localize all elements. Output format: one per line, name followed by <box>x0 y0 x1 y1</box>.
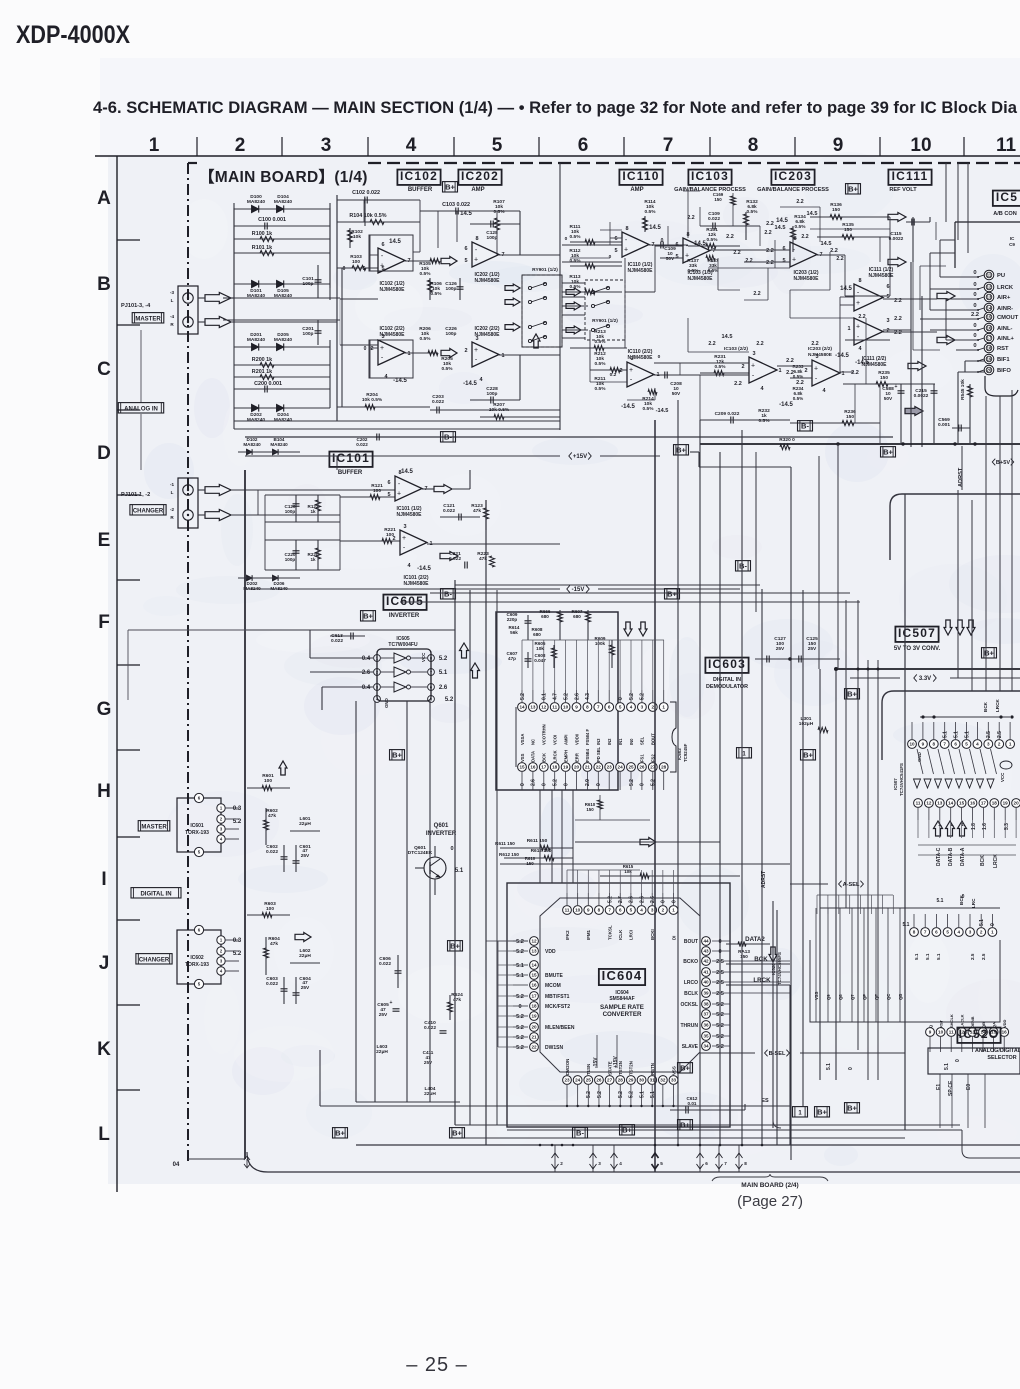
svg-text:AMPI: AMPI <box>563 735 568 745</box>
svg-text:MCK/FST2: MCK/FST2 <box>545 1004 570 1010</box>
svg-text:680: 680 <box>573 614 581 619</box>
svg-text:5.1: 5.1 <box>979 919 985 926</box>
svg-text:18: 18 <box>531 1004 537 1009</box>
svg-text:0: 0 <box>671 900 677 903</box>
svg-text:2.5: 2.5 <box>986 731 992 738</box>
svg-text:2.2: 2.2 <box>753 291 760 297</box>
svg-text:B+: B+ <box>452 1129 462 1138</box>
svg-text:IC111: IC111 <box>892 169 929 183</box>
svg-text:0: 0 <box>973 323 976 329</box>
svg-text:150: 150 <box>844 227 852 233</box>
svg-text:PD SEL: PD SEL <box>596 746 601 762</box>
svg-text:ICLK: ICLK <box>618 929 623 940</box>
svg-text:5.1: 5.1 <box>516 973 524 979</box>
svg-text:2.2: 2.2 <box>687 215 694 221</box>
svg-text:C102 0.022: C102 0.022 <box>352 190 380 196</box>
svg-text:0.047: 0.047 <box>534 658 546 663</box>
svg-text:0: 0 <box>364 346 367 352</box>
svg-text:6: 6 <box>675 242 678 248</box>
svg-text:36: 36 <box>703 1023 709 1028</box>
svg-text:5.2: 5.2 <box>629 693 635 700</box>
svg-text:5: 5 <box>660 1161 663 1166</box>
svg-text:5.1: 5.1 <box>639 1091 645 1098</box>
svg-text:1.8: 1.8 <box>971 823 977 830</box>
svg-text:TORX-193: TORX-193 <box>185 962 209 968</box>
svg-text:8: 8 <box>858 278 861 284</box>
svg-text:23: 23 <box>564 1078 570 1083</box>
svg-text:AINL-: AINL- <box>997 326 1013 332</box>
svg-text:16: 16 <box>970 801 976 806</box>
svg-text:1: 1 <box>847 326 850 332</box>
svg-text:15: 15 <box>531 973 537 978</box>
svg-text:100p: 100p <box>446 331 457 337</box>
svg-text:5.2: 5.2 <box>516 949 524 955</box>
svg-text:26: 26 <box>596 1078 602 1083</box>
svg-text:E1: E1 <box>936 1084 942 1090</box>
svg-text:9: 9 <box>929 1030 932 1035</box>
svg-text:ANALOG/DIGITAL: ANALOG/DIGITAL <box>975 1048 1020 1054</box>
svg-text:6: 6 <box>464 246 467 252</box>
svg-text:7: 7 <box>663 135 674 156</box>
svg-text:2: 2 <box>886 328 889 334</box>
svg-text:VCOTRHN: VCOTRHN <box>542 724 547 745</box>
svg-text:-14.5: -14.5 <box>855 360 869 366</box>
svg-text:A-SEL: A-SEL <box>843 882 860 888</box>
svg-text:NC: NC <box>531 739 536 745</box>
svg-text:2.5: 2.5 <box>970 953 975 960</box>
svg-text:STATE: STATE <box>607 1061 612 1075</box>
svg-text:BCK: BCK <box>754 956 768 963</box>
svg-text:-14.5: -14.5 <box>656 408 669 414</box>
svg-text:14: 14 <box>948 801 954 806</box>
svg-text:MA8240: MA8240 <box>274 337 292 343</box>
svg-text:GAIN/BALANCE PROCESS: GAIN/BALANCE PROCESS <box>674 187 746 193</box>
svg-text:MA8240: MA8240 <box>270 586 288 591</box>
svg-text:150: 150 <box>832 207 840 213</box>
svg-text:EMPH: EMPH <box>563 750 568 762</box>
svg-text:1k: 1k <box>310 557 316 562</box>
svg-text:H: H <box>97 781 111 802</box>
svg-text:14.5: 14.5 <box>840 286 852 292</box>
svg-text:C9: C9 <box>1009 242 1015 247</box>
svg-text:MLEN/BEEN: MLEN/BEEN <box>545 1025 575 1031</box>
svg-text:IC101: IC101 <box>332 451 370 465</box>
svg-text:0.5%: 0.5% <box>570 258 582 264</box>
svg-text:0.01: 0.01 <box>688 1101 697 1106</box>
svg-text:(Page 27): (Page 27) <box>737 1193 803 1210</box>
svg-text:0.5%: 0.5% <box>494 209 506 215</box>
svg-text:DATA-B: DATA-B <box>948 847 954 866</box>
svg-text:IC203: IC203 <box>774 169 812 183</box>
svg-text:38: 38 <box>703 1002 709 1007</box>
svg-text:R104 10k 0.5%: R104 10k 0.5% <box>349 213 386 219</box>
svg-text:0.5%: 0.5% <box>431 291 443 297</box>
svg-text:0: 0 <box>973 282 976 288</box>
svg-text:I: I <box>101 869 106 890</box>
svg-text:MCOM: MCOM <box>545 983 561 989</box>
svg-text:8: 8 <box>793 236 796 242</box>
svg-text:0.022: 0.022 <box>379 961 391 967</box>
svg-text:14: 14 <box>531 963 537 968</box>
svg-text:5.2: 5.2 <box>439 656 448 662</box>
svg-text:BUFFER: BUFFER <box>408 187 433 193</box>
svg-text:28: 28 <box>661 765 667 770</box>
svg-text:0: 0 <box>658 354 661 360</box>
svg-text:8: 8 <box>913 930 916 935</box>
svg-text:NJM4580E: NJM4580E <box>808 352 833 358</box>
svg-text:5.2: 5.2 <box>233 951 242 957</box>
svg-text:+: + <box>856 300 860 307</box>
svg-text:0.1: 0.1 <box>542 693 548 700</box>
svg-text:4: 4 <box>630 705 633 710</box>
svg-text:0: 0 <box>518 1004 521 1010</box>
svg-text:24: 24 <box>575 1078 581 1083</box>
svg-text:IFM1: IFM1 <box>586 929 591 940</box>
svg-text:B+: B+ <box>335 1129 345 1138</box>
svg-text:B+: B+ <box>622 1126 632 1135</box>
svg-text:7: 7 <box>608 908 611 913</box>
svg-text:150: 150 <box>846 414 854 420</box>
svg-text:47k: 47k <box>270 941 278 947</box>
svg-text:14.5: 14.5 <box>776 218 788 224</box>
svg-text:IC507: IC507 <box>893 778 898 790</box>
svg-text:6: 6 <box>619 908 622 913</box>
svg-text:5: 5 <box>614 248 617 254</box>
svg-text:22μH: 22μH <box>299 821 311 827</box>
svg-text:2: 2 <box>662 908 665 913</box>
svg-text:47p: 47p <box>508 656 516 661</box>
svg-text:MA8240: MA8240 <box>247 417 265 423</box>
svg-text:100: 100 <box>266 906 274 912</box>
svg-text:3: 3 <box>641 705 644 710</box>
svg-text:19: 19 <box>563 765 569 770</box>
svg-text:+: + <box>380 345 384 352</box>
svg-text:14: 14 <box>987 306 992 311</box>
svg-text:12: 12 <box>531 939 537 944</box>
svg-text:9: 9 <box>587 908 590 913</box>
svg-text:47k: 47k <box>453 997 461 1003</box>
svg-text:100: 100 <box>264 778 272 784</box>
svg-text:FS5B4: FS5B4 <box>585 748 590 762</box>
svg-text:11: 11 <box>949 1030 954 1035</box>
svg-text:1: 1 <box>672 908 675 913</box>
svg-text:J: J <box>99 953 110 974</box>
svg-text:3: 3 <box>886 318 889 324</box>
svg-text:25V: 25V <box>301 853 310 859</box>
svg-text:16: 16 <box>531 983 537 988</box>
svg-text:100p: 100p <box>285 557 296 562</box>
svg-text:0: 0 <box>563 783 569 786</box>
svg-text:5.2: 5.2 <box>607 896 613 903</box>
svg-text:MA8240: MA8240 <box>247 337 265 343</box>
svg-text:DATA-C: DATA-C <box>936 847 942 866</box>
svg-text:680: 680 <box>541 614 549 619</box>
svg-text:3: 3 <box>630 356 633 362</box>
svg-text:100k: 100k <box>595 641 606 646</box>
svg-text:10: 10 <box>938 1030 944 1035</box>
svg-text:B+: B+ <box>803 751 813 760</box>
svg-text:22: 22 <box>596 765 602 770</box>
svg-text:BUFFER: BUFFER <box>338 470 363 476</box>
svg-text:8: 8 <box>744 1161 747 1166</box>
svg-text:6: 6 <box>705 1161 708 1166</box>
svg-text:MA8240: MA8240 <box>274 199 292 205</box>
svg-text:0.2: 0.2 <box>610 372 617 378</box>
svg-text:SAMPLE RATE: SAMPLE RATE <box>600 1004 644 1011</box>
svg-text:2: 2 <box>464 348 467 354</box>
svg-text:14.5: 14.5 <box>722 334 733 340</box>
svg-text:R100 1k: R100 1k <box>252 231 272 237</box>
svg-text:IN1: IN1 <box>618 738 623 745</box>
svg-text:3: 3 <box>598 1161 601 1166</box>
svg-text:IC202: IC202 <box>461 169 499 183</box>
svg-text:OCKSL: OCKSL <box>681 1002 699 1008</box>
svg-text:9: 9 <box>922 742 925 747</box>
svg-text:2.7: 2.7 <box>618 896 624 903</box>
svg-text:28: 28 <box>618 1078 624 1083</box>
svg-text:20: 20 <box>531 1025 537 1030</box>
svg-text:+15V: +15V <box>573 454 587 460</box>
svg-text:+: + <box>390 1000 393 1006</box>
svg-text:SEL: SEL <box>640 736 645 745</box>
svg-text:14.5: 14.5 <box>460 211 472 217</box>
svg-text:1: 1 <box>991 930 994 935</box>
svg-text:NJM4580E: NJM4580E <box>474 278 500 284</box>
svg-text:ERR: ERR <box>574 753 579 762</box>
svg-text:6: 6 <box>935 930 938 935</box>
svg-text:PJ101-1, -2: PJ101-1, -2 <box>121 492 150 498</box>
svg-text:50V: 50V <box>672 391 681 397</box>
svg-text:0.022: 0.022 <box>266 981 278 987</box>
svg-text:IC102: IC102 <box>400 169 438 183</box>
svg-text:0.5%: 0.5% <box>570 234 582 240</box>
svg-text:17: 17 <box>531 994 537 999</box>
svg-text:23: 23 <box>607 765 613 770</box>
svg-text:BIF1: BIF1 <box>997 357 1010 363</box>
svg-text:5.2: 5.2 <box>516 1025 524 1031</box>
svg-text:0.5%: 0.5% <box>708 268 718 273</box>
svg-text:VCOI: VCOI <box>553 735 558 745</box>
svg-text:5.1: 5.1 <box>953 731 959 738</box>
svg-text:2: 2 <box>741 364 744 370</box>
svg-text:40: 40 <box>703 980 709 985</box>
svg-text:TST2N: TST2N <box>629 1061 634 1075</box>
svg-text:4: 4 <box>976 742 979 747</box>
svg-text:5: 5 <box>965 742 968 747</box>
svg-text:0.5%: 0.5% <box>793 396 803 401</box>
svg-text:IC5: IC5 <box>996 190 1018 204</box>
svg-text:PJ101-3, -4: PJ101-3, -4 <box>121 303 151 309</box>
svg-text:18: 18 <box>992 801 998 806</box>
svg-text:ADRST: ADRST <box>958 467 964 487</box>
svg-text:150: 150 <box>526 861 534 866</box>
svg-text:5.2: 5.2 <box>516 994 524 1000</box>
svg-text:42: 42 <box>703 959 709 964</box>
svg-text:2.2: 2.2 <box>836 256 843 262</box>
svg-text:2.2: 2.2 <box>766 260 774 266</box>
svg-text:10: 10 <box>909 742 915 747</box>
svg-text:100p: 100p <box>446 286 457 292</box>
svg-text:-14.5: -14.5 <box>393 378 407 384</box>
svg-text:2: 2 <box>235 135 246 156</box>
svg-text:5.2: 5.2 <box>629 1091 635 1098</box>
svg-text:IN3: IN3 <box>596 738 601 745</box>
svg-text:K: K <box>97 1039 111 1060</box>
svg-text:0: 0 <box>973 270 976 276</box>
svg-text:GAIN/BALANCE PROCESS: GAIN/BALANCE PROCESS <box>757 187 829 193</box>
svg-text:0: 0 <box>343 266 346 272</box>
svg-text:7: 7 <box>724 1161 727 1166</box>
svg-text:35: 35 <box>703 1034 709 1039</box>
svg-text:BCKO: BCKO <box>683 959 698 965</box>
svg-text:2.6: 2.6 <box>439 685 448 691</box>
svg-text:16: 16 <box>1002 1030 1008 1035</box>
svg-text:B+: B+ <box>847 690 857 699</box>
svg-text:VSS: VSS <box>814 991 819 1000</box>
svg-text:0.022: 0.022 <box>331 638 343 644</box>
svg-text:100: 100 <box>352 259 360 265</box>
svg-text:CHANGER: CHANGER <box>133 509 164 515</box>
svg-text:+: + <box>629 367 633 374</box>
svg-text:2.6: 2.6 <box>639 896 645 903</box>
svg-text:0: 0 <box>450 846 453 852</box>
svg-text:4-6. SCHEMATIC DIAGRAM — MAIN: 4-6. SCHEMATIC DIAGRAM — MAIN SECTION (1… <box>93 99 1018 117</box>
svg-text:NJM4580E: NJM4580E <box>396 512 422 518</box>
svg-text:11: 11 <box>987 273 992 278</box>
svg-text:150: 150 <box>586 807 594 812</box>
svg-text:R612 150: R612 150 <box>499 852 519 857</box>
svg-text:B+: B+ <box>817 1108 827 1117</box>
svg-text:TC7W004FU: TC7W004FU <box>388 642 418 648</box>
svg-text:-14.5: -14.5 <box>779 402 793 408</box>
svg-text:0.022: 0.022 <box>356 442 368 447</box>
svg-text:VSSA: VSSA <box>520 734 525 745</box>
svg-text:1: 1 <box>778 368 781 374</box>
svg-text:2.6: 2.6 <box>362 670 371 676</box>
svg-text:6: 6 <box>387 480 390 486</box>
svg-text:0.5%: 0.5% <box>747 209 759 215</box>
svg-text:5.2: 5.2 <box>516 939 524 945</box>
svg-text:3: 3 <box>752 351 755 357</box>
svg-text:2.2: 2.2 <box>734 381 742 387</box>
svg-text:3: 3 <box>403 524 406 530</box>
svg-text:0.5%: 0.5% <box>420 271 432 277</box>
svg-text:6: 6 <box>381 242 384 248</box>
svg-text:2.2: 2.2 <box>830 248 838 254</box>
svg-text:50V: 50V <box>884 396 893 402</box>
svg-text:B+: B+ <box>392 751 402 760</box>
svg-text:0: 0 <box>609 254 612 260</box>
svg-text:43: 43 <box>703 949 709 954</box>
svg-text:B-: B- <box>576 1129 584 1138</box>
svg-text:0: 0 <box>955 1059 961 1062</box>
svg-text:R201 1k: R201 1k <box>252 369 272 375</box>
svg-text:2.2: 2.2 <box>971 312 979 318</box>
svg-text:5: 5 <box>630 908 633 913</box>
svg-text:5.1: 5.1 <box>516 963 524 969</box>
svg-text:LRCK: LRCK <box>997 285 1014 291</box>
svg-text:IC603: IC603 <box>708 657 746 671</box>
svg-text:1: 1 <box>407 351 410 357</box>
svg-text:25V: 25V <box>424 1060 433 1065</box>
svg-text:SP-CE: SP-CE <box>948 1080 954 1096</box>
svg-text:2: 2 <box>980 930 983 935</box>
svg-text:2.2: 2.2 <box>726 234 734 240</box>
svg-text:5V TO 3V CONV.: 5V TO 3V CONV. <box>894 646 941 652</box>
svg-text:BCK: BCK <box>959 894 964 905</box>
svg-text:14.5: 14.5 <box>807 211 818 217</box>
svg-text:27: 27 <box>607 1078 613 1083</box>
svg-text:5.2: 5.2 <box>516 1045 524 1051</box>
svg-text:10k: 10k <box>536 646 544 651</box>
svg-text:-1: -1 <box>170 482 175 487</box>
svg-text:THRUN: THRUN <box>681 1023 699 1029</box>
svg-text:4: 4 <box>640 908 643 913</box>
svg-text:5.1: 5.1 <box>925 953 930 960</box>
svg-text:Q601: Q601 <box>434 823 449 829</box>
svg-text:IC604: IC604 <box>602 968 643 983</box>
svg-text:0.5%: 0.5% <box>420 336 432 342</box>
svg-text:14.5: 14.5 <box>401 469 413 475</box>
svg-text:20: 20 <box>987 368 992 373</box>
svg-text:ADRST: ADRST <box>761 871 767 888</box>
svg-text:B+: B+ <box>667 590 677 599</box>
svg-text:22μH: 22μH <box>299 953 311 959</box>
svg-text:IC110: IC110 <box>622 169 659 183</box>
svg-text:100p: 100p <box>285 509 296 514</box>
svg-text:QB: QB <box>898 994 903 1000</box>
svg-text:0: 0 <box>661 900 667 903</box>
svg-text:SHCLK: SHCLK <box>949 1014 954 1028</box>
svg-text:NJM4580E: NJM4580E <box>687 276 713 282</box>
svg-text:10: 10 <box>910 135 931 156</box>
svg-text:AINL+: AINL+ <box>997 336 1015 342</box>
svg-text:C100 0.001: C100 0.001 <box>258 217 286 223</box>
svg-text:RST: RST <box>938 1019 943 1028</box>
svg-text:4.3: 4.3 <box>585 693 591 700</box>
svg-text:0.022: 0.022 <box>266 849 278 855</box>
svg-text:DW1SN: DW1SN <box>545 1045 563 1051</box>
svg-text:100p: 100p <box>303 331 314 337</box>
svg-text:7: 7 <box>712 248 715 254</box>
svg-text:IC605: IC605 <box>386 594 424 608</box>
svg-text:2.2: 2.2 <box>894 330 902 336</box>
svg-text:0.022: 0.022 <box>432 399 444 405</box>
svg-text:0.5%: 0.5% <box>759 418 771 424</box>
svg-text:102μH: 102μH <box>799 721 814 727</box>
svg-text:20: 20 <box>574 765 580 770</box>
svg-text:TCKSL: TCKSL <box>607 925 612 940</box>
svg-text:B+: B+ <box>883 448 893 457</box>
svg-text:7: 7 <box>924 930 927 935</box>
svg-text:L: L <box>171 490 174 495</box>
svg-text:6: 6 <box>614 236 617 242</box>
svg-text:R320 0: R320 0 <box>779 437 795 443</box>
svg-text:5: 5 <box>464 258 467 264</box>
svg-text:FS584 F: FS584 F <box>585 728 590 745</box>
svg-text:A: A <box>97 188 111 209</box>
svg-text:B: B <box>97 274 111 295</box>
svg-text:BOUT: BOUT <box>684 939 698 945</box>
svg-text:13: 13 <box>531 949 537 954</box>
svg-text:BIFO: BIFO <box>997 368 1011 374</box>
svg-text:-2: -2 <box>170 507 175 512</box>
svg-text:IC52O: IC52O <box>959 1027 1000 1041</box>
svg-text:21: 21 <box>531 1035 537 1040</box>
svg-text:RY901 (1/2): RY901 (1/2) <box>592 318 618 324</box>
svg-text:11: 11 <box>565 908 570 913</box>
svg-text:SLAVE: SLAVE <box>682 1044 699 1050</box>
